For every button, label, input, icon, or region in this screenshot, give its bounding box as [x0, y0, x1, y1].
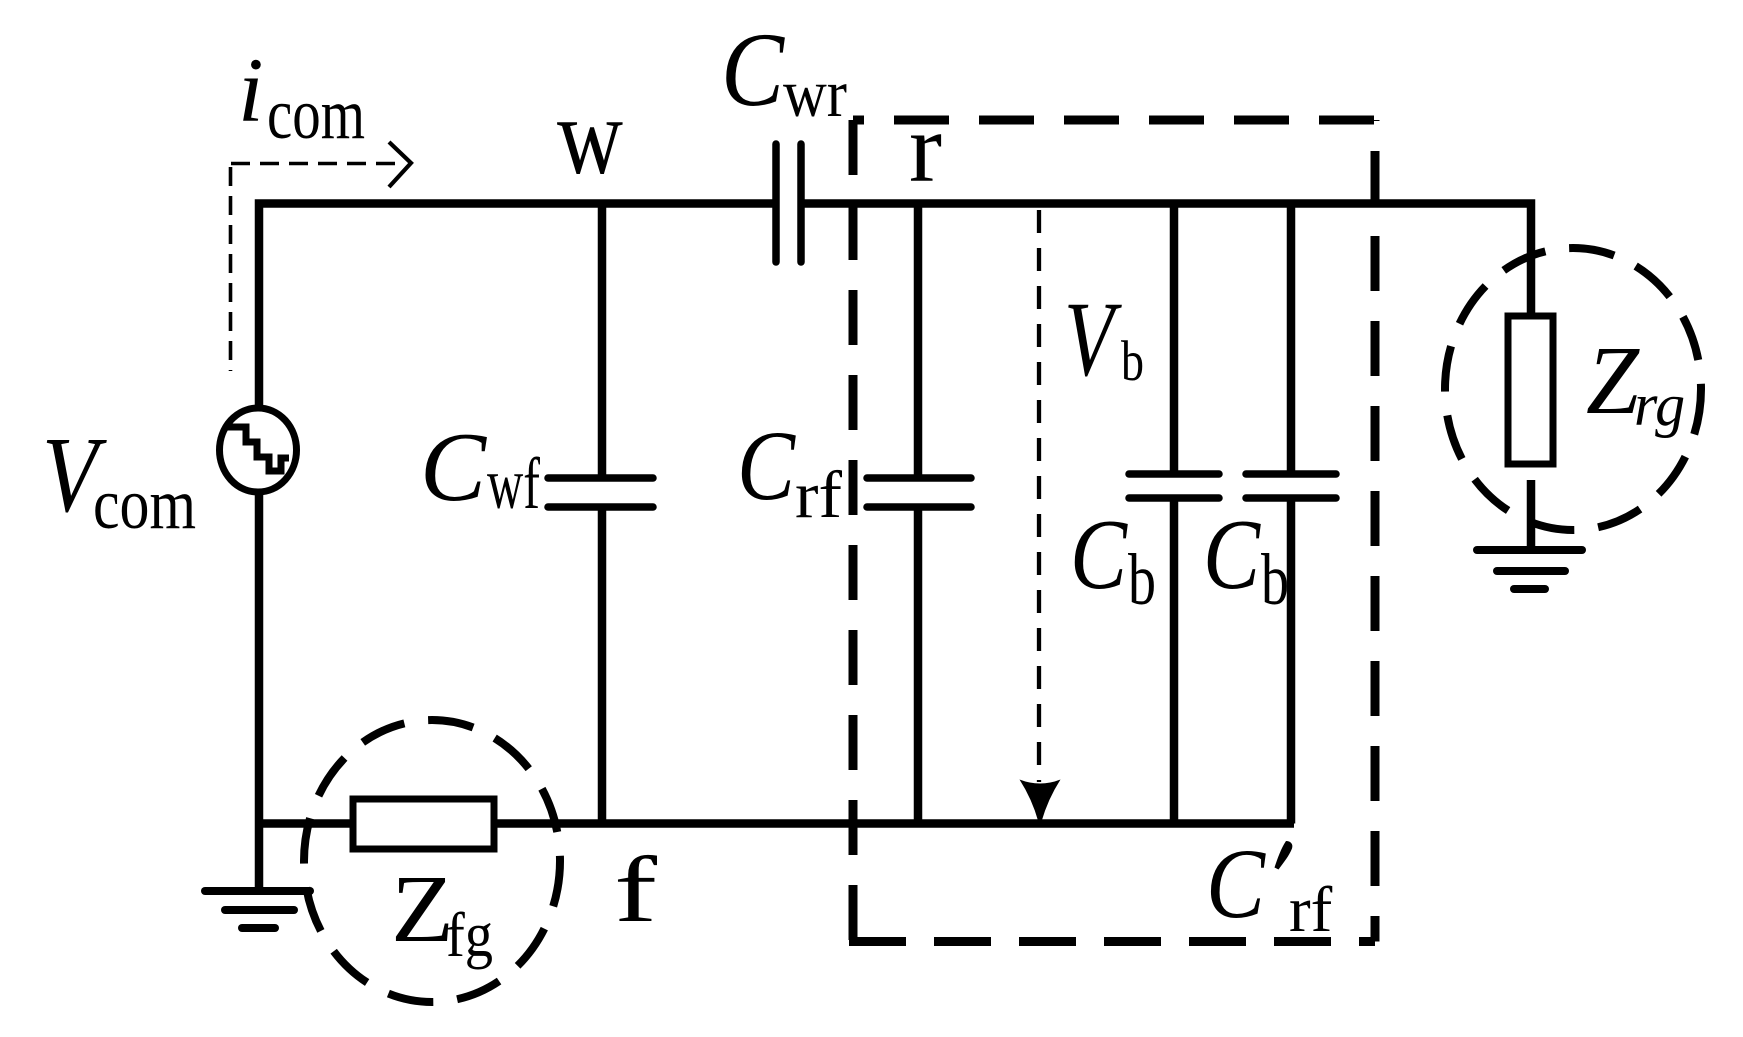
capacitor C_b2 branch wires — [1287, 204, 1296, 824]
svg-text:Z: Z — [1586, 327, 1640, 435]
capacitor C_rf branch wires — [914, 204, 923, 824]
svg-text:f: f — [614, 838, 658, 942]
svg-text:com: com — [93, 464, 196, 544]
svg-text:b: b — [1121, 330, 1144, 393]
arrow i_com dashed vertical — [229, 167, 233, 371]
capacitor C_wr plates — [776, 144, 801, 262]
ground left — [205, 891, 310, 928]
capacitor C_wf branch wires — [598, 204, 607, 824]
dashed circle around Z_rg — [1445, 248, 1701, 530]
svg-text:wf: wf — [487, 443, 540, 524]
ground right — [1477, 550, 1582, 589]
label C_b2 — [1203, 498, 1289, 620]
svg-text:w: w — [557, 75, 623, 197]
dashed box C'_rf : bottom edge — [849, 937, 1375, 946]
svg-text:com: com — [267, 74, 365, 154]
svg-text:Z: Z — [391, 855, 454, 962]
svg-text:C: C — [1206, 828, 1266, 939]
label C_wf — [420, 413, 540, 524]
label C_wr — [721, 11, 847, 131]
label V_com — [42, 416, 196, 544]
svg-text:C: C — [1203, 498, 1261, 610]
svg-text:b: b — [1261, 539, 1289, 620]
source V_com circle — [220, 408, 297, 492]
svg-text:C: C — [1070, 498, 1128, 610]
dashed circle around Z_fg — [304, 720, 560, 1002]
wire bottom — [259, 819, 1294, 828]
svg-text:i: i — [238, 39, 264, 141]
arrow V_b head — [1020, 780, 1061, 822]
label C_b1 — [1070, 498, 1156, 620]
capacitor C_b1 plates — [1129, 474, 1219, 498]
svg-text:V: V — [1064, 281, 1122, 399]
svg-text:rf: rf — [795, 458, 843, 532]
capacitor C_b1 branch wires — [1170, 204, 1179, 824]
svg-text:wr: wr — [783, 55, 847, 131]
wire top right segment from C_wr to corner above Z_rg — [801, 204, 1531, 317]
label Z_rg — [1586, 327, 1685, 438]
source V_com staircase waveform — [226, 427, 289, 471]
svg-text:rg: rg — [1634, 372, 1685, 438]
arrow V_b dashed line — [1037, 210, 1041, 782]
dashed box C'_rf : left edge — [849, 120, 858, 942]
svg-text:b: b — [1128, 539, 1156, 620]
svg-text:rf: rf — [1289, 874, 1333, 946]
label C'_rf — [1206, 828, 1333, 946]
arrow i_com chevron head — [389, 142, 411, 187]
label C_rf — [737, 410, 843, 532]
svg-text:C: C — [420, 413, 487, 522]
dashed box C'_rf : right edge — [1371, 120, 1380, 942]
capacitor C_wf plates — [548, 478, 653, 507]
resistor Z_rg — [1508, 316, 1553, 464]
wire Z_rg to ground — [1527, 480, 1536, 552]
arrow i_com dashed horizontal — [231, 162, 403, 166]
capacitor C_b2 plates — [1246, 474, 1336, 498]
resistor Z_fg — [353, 799, 494, 849]
svg-text:r: r — [909, 94, 942, 203]
capacitor C_rf plates — [867, 478, 971, 507]
wire below V_com to ground — [255, 491, 264, 889]
label Z_fg — [391, 855, 493, 970]
svg-text:C: C — [721, 11, 785, 128]
svg-text:fg: fg — [446, 899, 493, 970]
dashed box C'_rf : top edge — [853, 116, 1375, 125]
svg-text:C: C — [737, 410, 796, 521]
label i_com — [238, 39, 365, 154]
wire top left segment from V_com corner to C_wr — [259, 204, 773, 410]
label V_b — [1064, 281, 1144, 399]
